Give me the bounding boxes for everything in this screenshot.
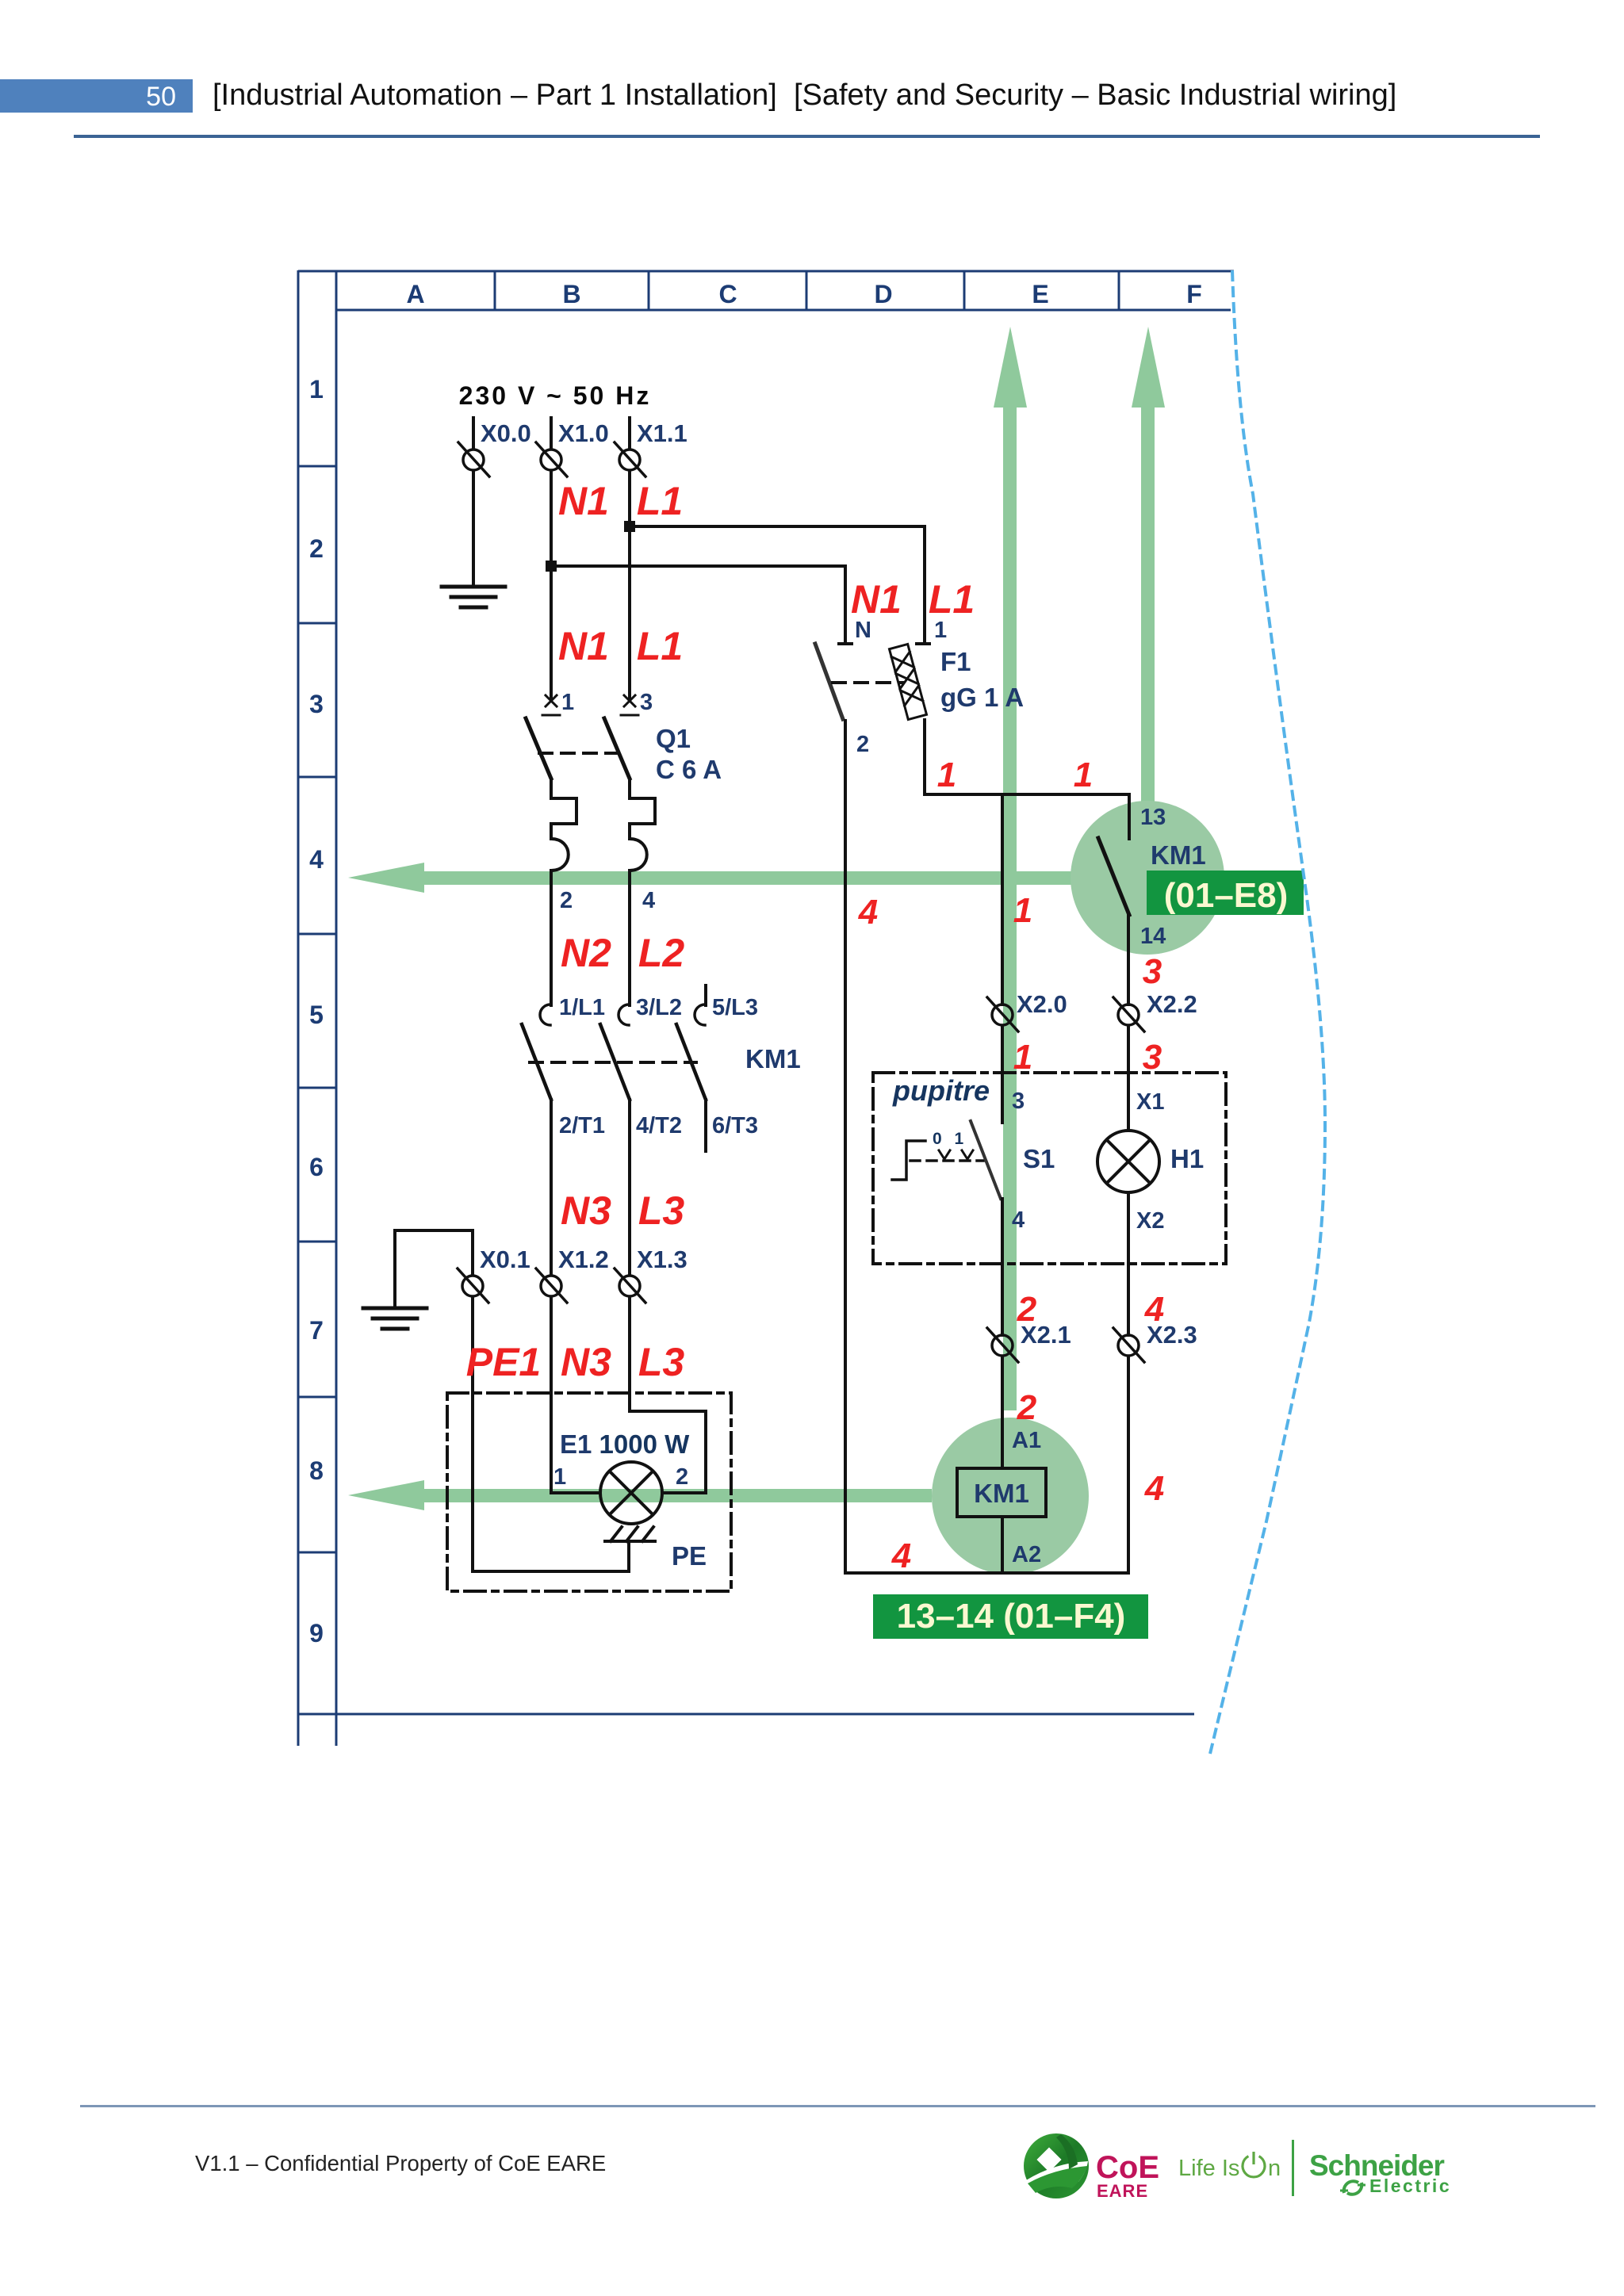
- wire N stub above X1.0: [550, 418, 553, 448]
- cross-reference box (01-E8): [1147, 871, 1304, 915]
- header rule: [74, 135, 1540, 138]
- frame row-band inner border: [335, 270, 338, 1746]
- switch S1 selector actuator: [892, 1141, 925, 1180]
- svg-text:1/L1: 1/L1: [559, 995, 605, 1020]
- svg-text:9: 9: [309, 1619, 324, 1647]
- footer text: [195, 2151, 606, 2176]
- wire N3 into heater box: [551, 1297, 600, 1493]
- svg-text:S1: S1: [1023, 1144, 1055, 1173]
- svg-text:Q1: Q1: [656, 724, 691, 753]
- svg-text:6: 6: [309, 1153, 324, 1181]
- footer rule: [80, 2105, 1595, 2107]
- svg-text:13: 13: [1140, 805, 1166, 830]
- svg-text:3: 3: [1012, 1089, 1025, 1114]
- svg-text:X1.0: X1.0: [558, 419, 609, 447]
- svg-text:X1.2: X1.2: [558, 1246, 609, 1273]
- svg-text:X2.3: X2.3: [1147, 1321, 1197, 1349]
- CoE EARE logo globe: [1024, 2133, 1089, 2198]
- Schneider SE glyph: [1340, 2181, 1365, 2195]
- wire N2 Q1 to KM1: [550, 871, 553, 1005]
- wire X0.0 to ground: [472, 471, 475, 585]
- breaker Q1 pole 2 blade: [604, 718, 630, 779]
- wire X2.2 to H1: [1127, 1026, 1130, 1131]
- switch S1 blade: [971, 1121, 1001, 1199]
- svg-text:L3: L3: [638, 1188, 685, 1233]
- contactor KM1 pole 1 blade: [522, 1024, 551, 1100]
- node L1 junction: [624, 521, 635, 532]
- wire L stub above X1.1: [628, 418, 631, 448]
- svg-text:1: 1: [934, 618, 947, 643]
- svg-text:KM1: KM1: [1151, 840, 1206, 870]
- wire X2.3 down: [1127, 1357, 1130, 1573]
- breaker Q1 pole 2 thermal-magnetic element: [630, 779, 655, 871]
- wire PE1 into heater box: [473, 1297, 629, 1571]
- svg-text:1: 1: [553, 1464, 566, 1490]
- fuse F1 cartridge: [890, 644, 927, 719]
- svg-text:E: E: [1032, 280, 1048, 308]
- wire L1 fuse to bus: [923, 720, 926, 794]
- svg-text:4: 4: [309, 845, 324, 874]
- highlight arrow row8 (current path heater): [348, 1480, 932, 1510]
- svg-text:4/T2: 4/T2: [636, 1113, 682, 1138]
- contactor KM1 pole 1 hook: [540, 1004, 550, 1025]
- cross-reference box 13-14 (01-F4): [873, 1594, 1148, 1639]
- pupitre enclosure (dash-dot box): [873, 1073, 1226, 1264]
- svg-text:gG 1 A: gG 1 A: [940, 683, 1024, 712]
- svg-text:1: 1: [1074, 756, 1093, 794]
- svg-text:3/L2: 3/L2: [636, 995, 682, 1020]
- svg-text:5/L3: 5/L3: [712, 995, 758, 1020]
- ground (top left): [442, 587, 505, 607]
- svg-text:C 6 A: C 6 A: [656, 755, 722, 784]
- heater E1 enclosure (dash-dot box): [447, 1393, 731, 1591]
- column divider B/C: [648, 271, 650, 310]
- svg-text:X0.1: X0.1: [480, 1246, 530, 1273]
- svg-text:E1 1000 W: E1 1000 W: [560, 1429, 690, 1459]
- header title: [213, 78, 1396, 113]
- svg-text:X1: X1: [1136, 1089, 1164, 1115]
- svg-text:PE: PE: [672, 1541, 707, 1571]
- frame top border: [298, 270, 1234, 273]
- row divider 3/4: [298, 776, 336, 779]
- svg-text:4: 4: [891, 1536, 911, 1575]
- terminal X0.1: [458, 1269, 488, 1303]
- svg-text:2: 2: [676, 1464, 688, 1490]
- header page-number bar: [0, 79, 193, 113]
- column divider D/E: [963, 271, 966, 310]
- wire PE1 jog to ground: [395, 1230, 473, 1307]
- svg-text:KM1: KM1: [974, 1479, 1029, 1508]
- svg-text:3: 3: [640, 690, 653, 715]
- svg-text:N3: N3: [561, 1340, 611, 1384]
- node N1 junction: [546, 561, 557, 572]
- frame outer left border: [297, 270, 300, 1746]
- svg-text:X2.0: X2.0: [1017, 990, 1067, 1018]
- svg-text:(01–E8): (01–E8): [1164, 876, 1289, 915]
- svg-text:n: n: [1268, 2156, 1281, 2181]
- heater E1 PE symbol: [605, 1527, 655, 1541]
- switch S1 linkage (dashed): [910, 1159, 983, 1162]
- svg-text:4: 4: [642, 888, 655, 913]
- terminal X1.2: [536, 1269, 567, 1303]
- svg-text:1: 1: [309, 375, 324, 404]
- svg-text:X0.0: X0.0: [481, 419, 531, 447]
- svg-text:pupitre: pupitre: [892, 1074, 990, 1107]
- wire to KM1 aux 13: [1128, 794, 1131, 839]
- svg-text:X2: X2: [1136, 1208, 1164, 1234]
- terminal X2.2: [1113, 997, 1144, 1031]
- svg-text:2: 2: [309, 534, 324, 563]
- svg-text:Life Is: Life Is: [1178, 2156, 1239, 2181]
- svg-text:N1: N1: [851, 577, 902, 622]
- svg-text:3: 3: [1143, 952, 1162, 991]
- terminal X0.0: [458, 442, 489, 476]
- lamp H1 cross: [1107, 1140, 1150, 1183]
- lamp H1: [1097, 1131, 1159, 1192]
- svg-text:A1: A1: [1012, 1428, 1041, 1453]
- wire N1 down from X1.0: [550, 471, 553, 701]
- breaker Q1 linkage (dashed): [539, 752, 619, 755]
- contact KM1 13-14 blade: [1098, 838, 1129, 915]
- ground (bottom left): [363, 1308, 427, 1329]
- svg-text:B: B: [562, 280, 580, 308]
- svg-text:3: 3: [1143, 1038, 1162, 1077]
- svg-text:5: 5: [309, 1001, 324, 1029]
- svg-text:L2: L2: [638, 931, 685, 975]
- svg-text:L1: L1: [929, 577, 975, 622]
- wire PE stub above X0.0: [472, 418, 475, 448]
- svg-text:KM1: KM1: [745, 1044, 801, 1073]
- svg-text:L1: L1: [637, 479, 683, 523]
- svg-text:3: 3: [309, 690, 324, 718]
- fused switch F1 linkage (dashed): [833, 681, 903, 684]
- frame bottom border: [298, 1713, 1194, 1716]
- terminal X1.1: [615, 442, 645, 476]
- breaker Q1 pole 1 blade: [526, 718, 551, 779]
- svg-text:X1.1: X1.1: [637, 419, 688, 447]
- svg-text:F1: F1: [940, 647, 971, 676]
- column divider C/D: [806, 271, 808, 310]
- svg-text:7: 7: [309, 1316, 324, 1345]
- switch S1 position marks: [939, 1150, 973, 1159]
- fused switch F1 L-pole terminal: [917, 642, 929, 645]
- svg-text:D: D: [874, 280, 892, 308]
- highlight arrow row4 (current path power): [348, 863, 1225, 893]
- frame column-band bottom border: [336, 309, 1231, 312]
- wire control bus row F1: [925, 793, 1129, 796]
- svg-text:PE1: PE1: [466, 1340, 542, 1384]
- svg-text:C: C: [718, 280, 737, 308]
- highlight circle on KM1 coil: [932, 1418, 1089, 1575]
- svg-text:EARE: EARE: [1097, 2181, 1148, 2201]
- wire L3 KM1 to X1.3: [628, 1100, 631, 1275]
- wire H1 to X2.3: [1127, 1192, 1130, 1335]
- page number 50: [0, 82, 176, 115]
- svg-text:4: 4: [1144, 1469, 1164, 1508]
- fused switch F1 N-pole terminal: [839, 642, 852, 645]
- wire branch to S1: [1001, 794, 1004, 1004]
- svg-text:1: 1: [937, 756, 956, 794]
- svg-text:6/T3: 6/T3: [712, 1113, 758, 1138]
- breaker Q1 pole 1 thermal-magnetic element: [551, 779, 576, 871]
- highlight arrow column F (vertical): [1132, 327, 1165, 840]
- row divider 2/3: [298, 622, 336, 625]
- row divider 7/8: [298, 1396, 336, 1399]
- svg-text:N1: N1: [558, 479, 609, 523]
- svg-text:4: 4: [858, 893, 878, 932]
- logo divider bar: [1292, 2140, 1294, 2196]
- svg-text:L1: L1: [637, 624, 683, 668]
- terminal X2.3: [1113, 1328, 1144, 1362]
- svg-text:230 V ~ 50 Hz: 230 V ~ 50 Hz: [459, 381, 652, 410]
- svg-text:1: 1: [561, 690, 574, 715]
- lamp E1 (heater): [600, 1462, 662, 1524]
- svg-text:CoE: CoE: [1096, 2150, 1159, 2185]
- row divider 1/2: [298, 465, 336, 468]
- svg-text:N3: N3: [561, 1188, 611, 1233]
- highlight circle on KM1 aux contact: [1071, 801, 1224, 955]
- wire S1 to X2.1: [1001, 1199, 1004, 1335]
- wire N1 branch to F1: [551, 566, 845, 644]
- wire KM1 14 to X2.2: [1127, 915, 1130, 1004]
- breaker Q1 pole 2 terminal marks: [621, 695, 638, 715]
- svg-text:X1.3: X1.3: [637, 1246, 688, 1273]
- contactor KM1 pole 3 hook: [695, 1004, 705, 1025]
- wire L2 Q1 to KM1: [628, 871, 631, 1005]
- svg-text:H1: H1: [1170, 1144, 1204, 1173]
- svg-text:1: 1: [1013, 891, 1032, 930]
- wire L1 down from X1.1: [628, 471, 631, 701]
- svg-text:1: 1: [1013, 1038, 1032, 1077]
- wire bottom return bus: [845, 1571, 1128, 1575]
- svg-text:14: 14: [1140, 924, 1166, 949]
- svg-text:2: 2: [1017, 1388, 1037, 1427]
- contactor KM1 pole 3 stub top: [704, 985, 707, 1005]
- svg-text:2: 2: [560, 888, 573, 913]
- svg-text:A2: A2: [1012, 1542, 1041, 1567]
- contactor KM1 pole 3 stub bottom: [704, 1100, 707, 1151]
- svg-text:8: 8: [309, 1456, 324, 1485]
- contactor KM1 pole 2 hook: [619, 1004, 629, 1025]
- svg-text:X2.1: X2.1: [1021, 1321, 1071, 1349]
- svg-text:X2.2: X2.2: [1147, 990, 1197, 1018]
- column divider E/F: [1118, 271, 1120, 310]
- svg-text:2/T1: 2/T1: [559, 1113, 605, 1138]
- svg-text:Electric: Electric: [1369, 2175, 1451, 2196]
- svg-text:0 1: 0 1: [933, 1130, 967, 1148]
- svg-text:N2: N2: [561, 931, 611, 975]
- wire X2.1 to coil A1: [1001, 1357, 1004, 1468]
- svg-text:A: A: [406, 280, 424, 308]
- svg-text:L3: L3: [638, 1340, 685, 1384]
- fused switch F1 N-pole blade: [815, 644, 843, 719]
- terminal X1.0: [536, 442, 567, 476]
- lamp E1 cross: [610, 1471, 653, 1514]
- svg-text:4: 4: [1012, 1207, 1025, 1233]
- highlight arrow column E (vertical): [994, 327, 1027, 1410]
- contactor KM1 linkage (dashed): [530, 1061, 696, 1064]
- page-curl curve: [1210, 270, 1325, 1754]
- row divider 6/7: [298, 1241, 336, 1243]
- terminal X2.1: [987, 1328, 1018, 1362]
- svg-text:N1: N1: [558, 624, 609, 668]
- row divider 5/6: [298, 1087, 336, 1089]
- breaker Q1 pole 1 terminal marks: [542, 695, 560, 715]
- wire N3 KM1 to X1.2: [550, 1100, 553, 1275]
- svg-text:N: N: [855, 618, 871, 643]
- contactor KM1 pole 2 blade: [600, 1024, 630, 1100]
- wire L1 branch to F1: [630, 526, 925, 644]
- contactor KM1 pole 3 blade: [676, 1024, 706, 1100]
- wire N (F1 to coil bus): [844, 721, 847, 1573]
- row divider 8/9: [298, 1552, 336, 1554]
- svg-text:F: F: [1186, 280, 1202, 308]
- coil KM1 box: [957, 1468, 1046, 1517]
- svg-text:2: 2: [856, 732, 869, 757]
- wire coil A2 down: [1001, 1517, 1004, 1573]
- wire X2.0 to S1: [1001, 1026, 1004, 1123]
- terminal X1.3: [615, 1269, 645, 1303]
- wire L3 into heater box: [630, 1297, 706, 1493]
- terminal X2.0: [987, 997, 1018, 1031]
- column divider A/B: [494, 271, 496, 310]
- svg-text:13–14 (01–F4): 13–14 (01–F4): [897, 1597, 1126, 1636]
- row divider 4/5: [298, 933, 336, 936]
